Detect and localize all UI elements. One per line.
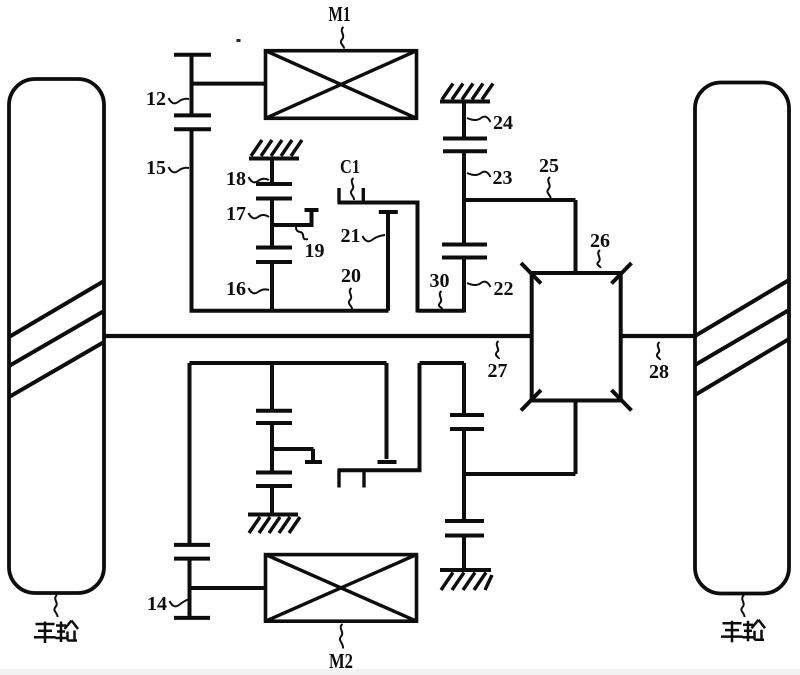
- svg-text:18: 18: [226, 168, 246, 190]
- wire ground 18 to gear 18: [270, 159, 274, 185]
- motor M2: [266, 555, 417, 622]
- label M2 with leader: [329, 624, 353, 673]
- ground (hatched wall, bottom right): [440, 570, 492, 590]
- label 21 with leader: [341, 225, 386, 247]
- svg-text:26: 26: [590, 230, 610, 252]
- differential corner mark bottom-right: [612, 390, 632, 411]
- countershaft connector A' (lower, links 14/16'/21'): [190, 361, 387, 365]
- wire C1 down leg 30: [418, 203, 465, 313]
- wire shaft 14 lower: [188, 559, 192, 618]
- svg-text:25: 25: [539, 155, 559, 177]
- svg-text:19: 19: [305, 240, 325, 262]
- svg-text:17: 17: [226, 203, 246, 225]
- svg-text:C1: C1: [340, 156, 360, 178]
- shaft 14 bottom cap: [174, 616, 210, 620]
- svg-text:21: 21: [341, 225, 361, 247]
- label 19 with leader: [296, 227, 325, 262]
- clutch C1 (dog clutch crown): [338, 188, 420, 203]
- lower right gear pair (mirror of 22): [450, 415, 484, 429]
- label right wheel (车轮) with leader: [721, 595, 765, 642]
- wire shaft 12 upper: [190, 55, 194, 116]
- wire ground 24 to gear 24: [462, 102, 466, 139]
- label 28 with leader: [649, 342, 669, 383]
- label 18 with leader: [226, 168, 269, 190]
- label 15 with leader: [146, 157, 189, 179]
- label 22 with leader: [467, 278, 514, 300]
- wire to bottom right ground: [462, 536, 466, 571]
- axle shaft 28 (right half-shaft wire): [620, 334, 695, 338]
- wire connector A' to lower gear pair (mirror of 16/17): [270, 363, 274, 411]
- svg-text:23: 23: [493, 167, 513, 189]
- svg-text:27: 27: [488, 360, 508, 382]
- wire junction 23 to shaft 25: [464, 198, 576, 202]
- wire lower clutch up leg: [420, 363, 465, 470]
- label 30 with leader: [430, 270, 450, 309]
- wire M2 to shaft 14: [190, 586, 266, 590]
- svg-text:15: 15: [146, 157, 166, 179]
- differential corner mark top-left: [521, 263, 541, 284]
- shaft 12 top cap: [174, 53, 211, 57]
- svg-text:20: 20: [341, 265, 361, 287]
- bottom scan band: [0, 669, 800, 675]
- label 25 with leader: [539, 155, 559, 198]
- ground 24 (hatched wall, top right): [440, 84, 493, 102]
- lower gear pair bars (mirror of 17): [256, 411, 292, 423]
- wire diff bottom output: [464, 400, 576, 474]
- axle shaft 27 (left half-shaft wire): [104, 334, 532, 338]
- label 20 with leader: [341, 265, 361, 309]
- lower input link (inverted tee, mirror of 21): [378, 363, 397, 462]
- input link 21 (tee shaft): [379, 212, 398, 311]
- svg-text:22: 22: [494, 278, 514, 300]
- gear 14 (meshing bars): [174, 545, 210, 559]
- gear 12 (meshing bars): [174, 115, 211, 129]
- gear 22 (meshing bars): [442, 245, 487, 258]
- label 14 with leader: [147, 593, 189, 615]
- differential corner mark top-right: [612, 263, 632, 284]
- wire lower gear to ground: [270, 486, 274, 515]
- motor M1: [266, 51, 417, 119]
- label 16 with leader: [226, 278, 269, 300]
- right wheel: [695, 83, 789, 594]
- label left wheel (车轮) with leader: [34, 595, 78, 643]
- gear 16 (meshing bars): [256, 248, 292, 263]
- wire gear 22 to link 30: [462, 258, 466, 313]
- left wheel: [9, 79, 104, 593]
- differential corner mark bottom-left: [521, 390, 541, 411]
- svg-text:24: 24: [493, 112, 513, 134]
- label 26 with leader: [590, 230, 610, 268]
- differential 26 (box): [532, 273, 621, 401]
- svg-text:M1: M1: [329, 2, 351, 26]
- shaft 25 (wire down to differential): [574, 200, 578, 273]
- wire to junction with diff output: [462, 429, 466, 521]
- label 23 with leader: [467, 167, 513, 189]
- wire lower right shaft upper: [462, 363, 466, 415]
- branch 19 (carrier arm with pinion): [272, 210, 319, 225]
- lower branch (mirror of 19): [272, 449, 322, 462]
- svg-text:12: 12: [146, 88, 166, 110]
- label 17 with leader: [226, 203, 269, 225]
- svg-text:16: 16: [226, 278, 246, 300]
- lower right gear pair 2 (mirror of 23): [445, 521, 484, 536]
- wire to lower branch: [270, 423, 274, 473]
- ground 18 (hatched wall, top): [249, 140, 302, 159]
- ground (hatched wall, bottom middle): [248, 515, 300, 534]
- lower gear pair bars (mirror of 16): [256, 473, 292, 487]
- svg-text:14: 14: [147, 593, 167, 615]
- label 27 with leader: [488, 341, 508, 382]
- countershaft connector A (upper, links 15/16/21): [190, 309, 389, 313]
- label M1 with leader: [329, 2, 351, 49]
- stray dot artifact: [237, 39, 241, 42]
- wire gear 23 to junction: [462, 151, 466, 244]
- label 24 with leader: [467, 112, 513, 134]
- lower clutch (mirror of C1): [338, 470, 422, 487]
- wire gear 16 to connector A: [270, 262, 274, 311]
- label C1 with leader: [340, 156, 360, 200]
- wire shaft 15: [190, 129, 194, 312]
- gear 18/17 (meshing bars): [256, 184, 292, 199]
- svg-text:28: 28: [649, 361, 669, 383]
- svg-text:30: 30: [430, 270, 450, 292]
- label 12 with leader: [146, 88, 189, 110]
- wire gear 17 to branch 19: [270, 199, 274, 248]
- wire M1 to shaft 12: [192, 82, 266, 86]
- wire shaft 14 upper: [188, 363, 192, 545]
- gear 24/23 (meshing bars): [443, 139, 487, 152]
